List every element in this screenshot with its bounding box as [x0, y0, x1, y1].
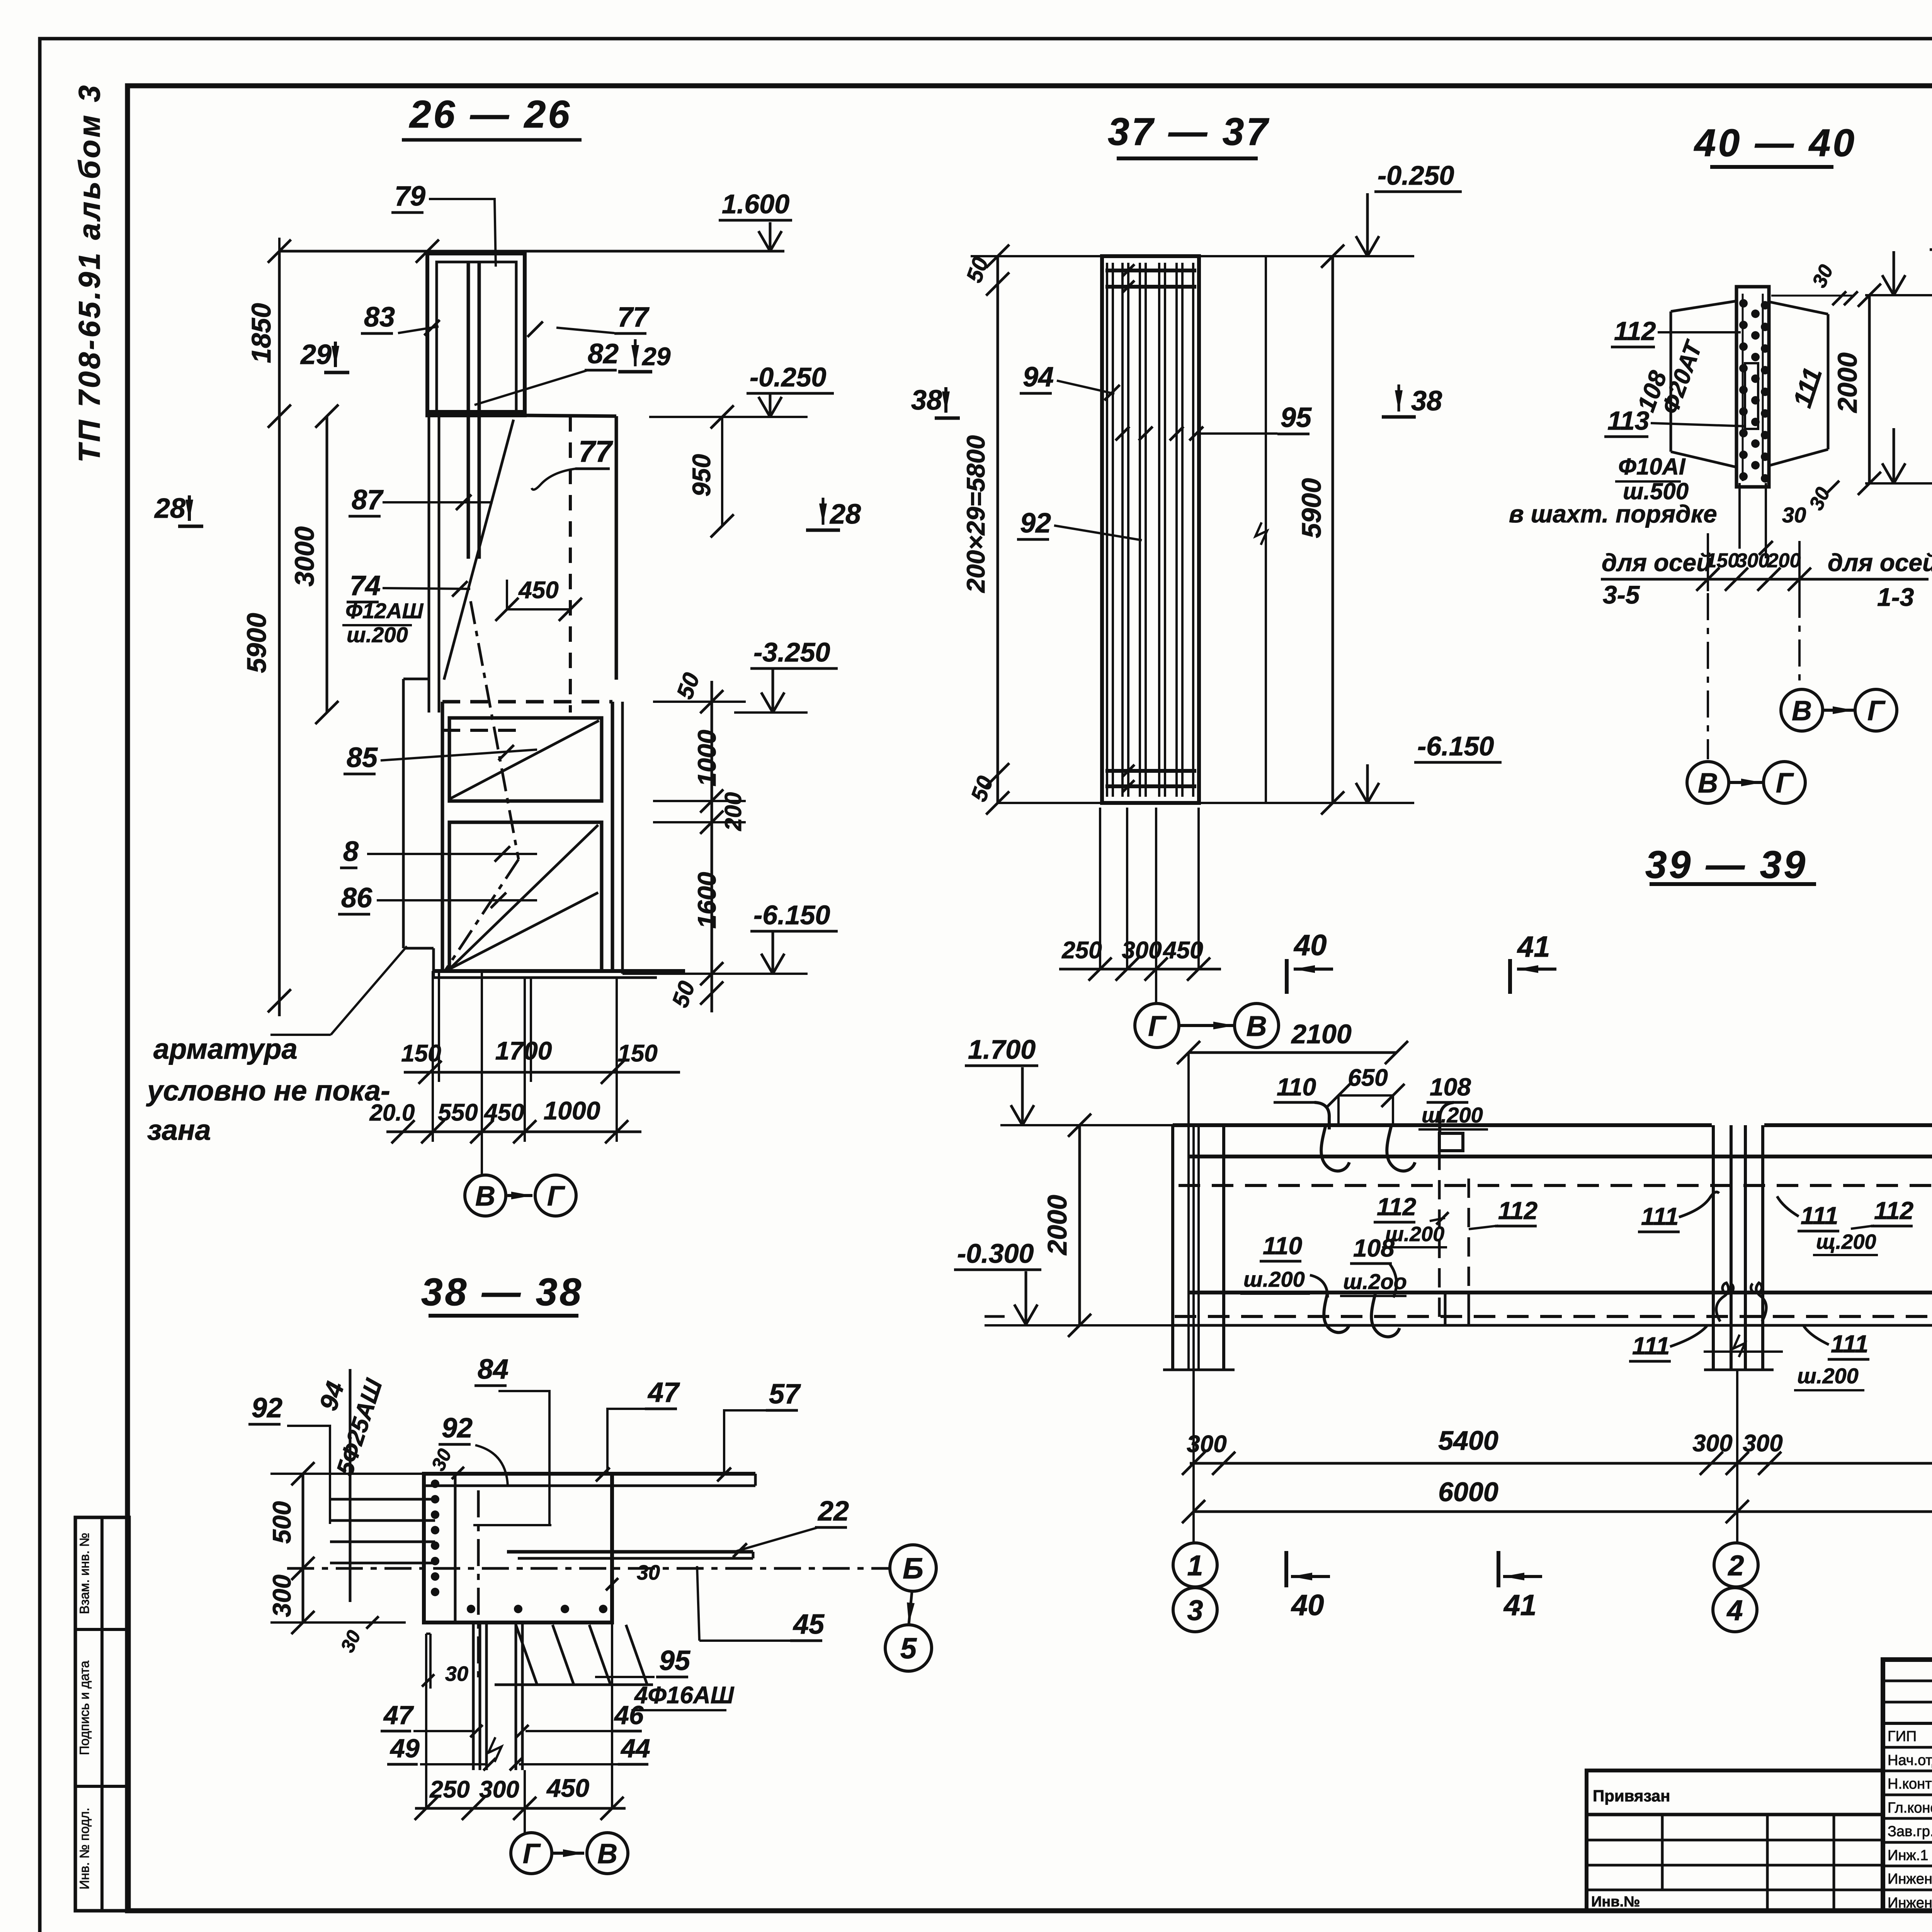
svg-text:зана: зана	[147, 1114, 211, 1146]
svg-text:113: 113	[1607, 406, 1650, 435]
svg-text:3000: 3000	[289, 526, 320, 587]
svg-text:500: 500	[267, 1501, 296, 1544]
svg-text:112: 112	[1498, 1197, 1537, 1225]
svg-text:38: 38	[1411, 386, 1442, 417]
svg-text:85: 85	[347, 742, 378, 773]
svg-text:30: 30	[445, 1662, 468, 1685]
svg-text:22: 22	[817, 1496, 849, 1527]
svg-text:111: 111	[1641, 1202, 1679, 1230]
svg-text:40 — 40: 40 — 40	[1694, 121, 1857, 165]
svg-text:1850: 1850	[246, 303, 276, 363]
svg-text:110: 110	[1263, 1232, 1302, 1260]
svg-text:Н.контр.: Н.контр.	[1888, 1776, 1932, 1792]
svg-text:40: 40	[1293, 929, 1327, 962]
svg-text:3-5: 3-5	[1603, 580, 1640, 609]
svg-text:87: 87	[352, 485, 384, 515]
svg-text:79: 79	[395, 181, 425, 212]
svg-text:46: 46	[614, 1701, 644, 1730]
svg-text:111: 111	[1831, 1330, 1868, 1358]
svg-text:1.600: 1.600	[722, 189, 789, 219]
svg-text:950: 950	[687, 454, 716, 497]
svg-text:Г: Г	[547, 1181, 565, 1212]
svg-text:-3.250: -3.250	[753, 637, 830, 667]
svg-text:5400: 5400	[1438, 1425, 1498, 1456]
svg-text:1000: 1000	[544, 1096, 600, 1125]
svg-text:-0.250: -0.250	[750, 362, 827, 392]
svg-text:Инв.№: Инв.№	[1591, 1894, 1640, 1910]
svg-text:108: 108	[1430, 1073, 1471, 1101]
svg-text:111: 111	[1801, 1202, 1838, 1230]
svg-text:1000: 1000	[692, 730, 721, 786]
svg-text:150: 150	[617, 1040, 657, 1067]
svg-text:-6.150: -6.150	[1417, 731, 1494, 761]
svg-text:300: 300	[1692, 1430, 1732, 1457]
svg-text:В: В	[475, 1181, 495, 1212]
svg-text:150: 150	[401, 1040, 441, 1067]
svg-text:650: 650	[1348, 1065, 1388, 1091]
svg-text:83: 83	[364, 302, 395, 333]
svg-text:45: 45	[793, 1609, 825, 1640]
svg-text:450: 450	[546, 1774, 589, 1802]
svg-text:111: 111	[1632, 1332, 1670, 1360]
svg-text:108: 108	[1353, 1234, 1395, 1262]
svg-text:6000: 6000	[1438, 1477, 1498, 1507]
svg-text:Подпись и дата: Подпись и дата	[77, 1661, 92, 1755]
svg-text:1700: 1700	[495, 1036, 552, 1065]
svg-text:150: 150	[1706, 549, 1739, 572]
svg-text:112: 112	[1377, 1193, 1416, 1221]
svg-text:450: 450	[483, 1099, 524, 1126]
svg-text:ГИП: ГИП	[1888, 1728, 1917, 1745]
svg-text:112: 112	[1874, 1197, 1913, 1225]
svg-text:250: 250	[429, 1776, 469, 1803]
svg-text:Г: Г	[523, 1838, 541, 1869]
svg-text:82: 82	[588, 338, 619, 369]
svg-text:4Ф16АШ: 4Ф16АШ	[634, 1682, 735, 1709]
svg-text:1: 1	[1187, 1549, 1203, 1582]
svg-text:Взам. инв. №: Взам. инв. №	[77, 1533, 92, 1614]
svg-text:40: 40	[1291, 1589, 1324, 1622]
svg-text:5900: 5900	[1296, 478, 1327, 538]
svg-text:щ.200: щ.200	[1816, 1230, 1876, 1253]
svg-text:110: 110	[1277, 1073, 1316, 1101]
svg-text:-0.300: -0.300	[957, 1238, 1034, 1269]
svg-text:5: 5	[900, 1632, 917, 1665]
svg-text:95: 95	[1281, 402, 1312, 433]
svg-text:300: 300	[479, 1776, 519, 1803]
svg-text:Г: Г	[1776, 768, 1794, 799]
svg-text:44: 44	[620, 1734, 650, 1763]
svg-text:В: В	[1792, 696, 1812, 726]
svg-text:250: 250	[1061, 937, 1102, 964]
svg-text:1.700: 1.700	[968, 1034, 1036, 1065]
svg-text:38: 38	[911, 385, 942, 416]
svg-text:1600: 1600	[692, 872, 721, 929]
svg-text:30: 30	[1782, 503, 1806, 527]
svg-text:Инв. № подл.: Инв. № подл.	[77, 1808, 92, 1889]
svg-text:300: 300	[1122, 937, 1162, 964]
svg-text:Ф10АI: Ф10АI	[1618, 454, 1686, 480]
svg-text:Зав.гр.: Зав.гр.	[1888, 1823, 1932, 1840]
svg-text:49: 49	[389, 1734, 420, 1763]
svg-text:300: 300	[1743, 1430, 1782, 1457]
svg-text:47: 47	[383, 1701, 414, 1730]
svg-text:3: 3	[1187, 1594, 1203, 1626]
svg-text:300: 300	[1736, 549, 1770, 572]
svg-text:в шахт. порядке: в шахт. порядке	[1509, 500, 1717, 528]
svg-text:1-3: 1-3	[1877, 583, 1914, 611]
svg-text:-0.250: -0.250	[1378, 160, 1454, 190]
svg-text:Гл.констр.: Гл.констр.	[1888, 1800, 1932, 1816]
svg-text:41: 41	[1517, 930, 1550, 963]
svg-text:Инженер: Инженер	[1888, 1871, 1932, 1887]
svg-text:92: 92	[1020, 508, 1051, 539]
svg-text:ТП 708-65.91 альбом 3: ТП 708-65.91 альбом 3	[72, 83, 106, 463]
svg-text:В: В	[1698, 768, 1718, 799]
svg-text:200: 200	[720, 792, 746, 831]
svg-text:450: 450	[1162, 937, 1203, 964]
svg-text:29: 29	[300, 339, 332, 370]
svg-text:ш.200: ш.200	[347, 622, 408, 647]
svg-text:арматура: арматура	[153, 1033, 298, 1065]
svg-text:450: 450	[518, 577, 558, 604]
svg-text:Г: Г	[1867, 696, 1886, 726]
svg-text:95: 95	[659, 1645, 690, 1676]
svg-text:77: 77	[578, 434, 613, 468]
svg-text:200: 200	[1767, 549, 1801, 572]
svg-text:Г: Г	[1148, 1010, 1167, 1042]
svg-text:-6.150: -6.150	[753, 900, 830, 930]
svg-text:26 — 26: 26 — 26	[409, 93, 572, 136]
svg-text:Б: Б	[903, 1552, 923, 1585]
svg-text:550: 550	[438, 1099, 478, 1126]
svg-text:86: 86	[341, 883, 372, 913]
svg-text:47: 47	[647, 1377, 680, 1408]
svg-text:условно не пока-: условно не пока-	[146, 1075, 390, 1107]
svg-text:41: 41	[1503, 1589, 1537, 1622]
svg-text:200×29=5800: 200×29=5800	[961, 435, 990, 594]
svg-text:ш.200: ш.200	[1422, 1103, 1483, 1127]
svg-text:92: 92	[252, 1393, 282, 1423]
svg-text:Ф12АШ: Ф12АШ	[345, 599, 423, 623]
svg-text:37 — 37: 37 — 37	[1108, 110, 1270, 153]
svg-text:Привязан: Привязан	[1593, 1787, 1670, 1805]
svg-text:Нач.отд.: Нач.отд.	[1888, 1752, 1932, 1769]
svg-text:2000: 2000	[1832, 352, 1862, 413]
svg-text:5900: 5900	[241, 613, 272, 673]
svg-text:39 — 39: 39 — 39	[1645, 843, 1808, 886]
svg-text:94: 94	[1023, 362, 1054, 393]
svg-text:ш.200: ш.200	[1797, 1364, 1859, 1388]
svg-text:74: 74	[350, 570, 381, 601]
svg-text:4: 4	[1726, 1594, 1743, 1626]
svg-text:В: В	[1246, 1010, 1267, 1042]
svg-text:57: 57	[769, 1379, 801, 1410]
svg-text:38 — 38: 38 — 38	[421, 1270, 583, 1314]
svg-text:В: В	[597, 1838, 617, 1869]
svg-text:2000: 2000	[1042, 1195, 1072, 1256]
svg-text:29: 29	[641, 342, 671, 371]
svg-text:Инженер: Инженер	[1888, 1895, 1932, 1911]
svg-text:28: 28	[154, 493, 185, 524]
svg-text:2100: 2100	[1291, 1019, 1352, 1049]
svg-text:28: 28	[829, 499, 861, 530]
svg-text:92: 92	[442, 1413, 473, 1444]
svg-text:для осей: для осей	[1828, 549, 1932, 577]
svg-text:77: 77	[617, 302, 650, 333]
svg-text:8: 8	[343, 836, 359, 867]
svg-text:84: 84	[478, 1354, 509, 1385]
svg-text:2: 2	[1727, 1549, 1744, 1582]
svg-text:300: 300	[267, 1575, 296, 1617]
svg-text:30: 30	[637, 1561, 660, 1584]
svg-text:ш.200: ш.200	[1243, 1267, 1305, 1291]
svg-text:для осей: для осей	[1602, 549, 1711, 577]
svg-text:Инж.1 кат: Инж.1 кат	[1888, 1847, 1932, 1864]
svg-text:112: 112	[1614, 316, 1656, 346]
